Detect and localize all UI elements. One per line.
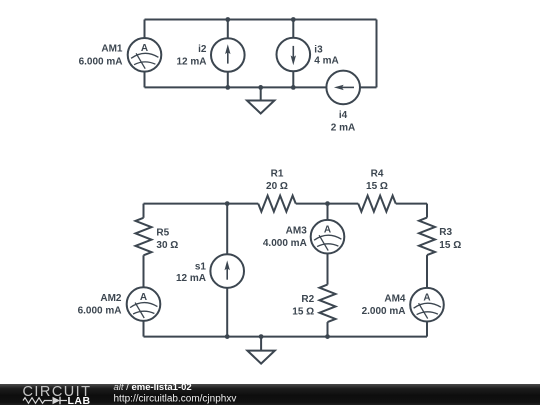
- svg-text:R2: R2: [301, 294, 314, 305]
- svg-text:i2: i2: [198, 44, 207, 55]
- svg-text:R5: R5: [156, 228, 169, 239]
- node dot i3 bottom: [291, 85, 296, 90]
- svg-text:4 mA: 4 mA: [314, 56, 338, 67]
- label i4: [331, 110, 355, 134]
- svg-text:LAB: LAB: [68, 395, 91, 405]
- svg-text:R1: R1: [271, 169, 284, 180]
- svg-text:http://circuitlab.com/cjnphxv: http://circuitlab.com/cjnphxv: [114, 394, 237, 405]
- resistor R2: [320, 285, 336, 323]
- svg-text:i3: i3: [314, 45, 323, 56]
- label i2: [176, 44, 206, 68]
- node dot i3 top: [291, 17, 296, 22]
- svg-text:s1: s1: [195, 261, 207, 272]
- svg-text:i4: i4: [339, 110, 348, 121]
- wire right branch upper: [426, 204, 428, 218]
- wire AM3 branch upper: [327, 204, 329, 220]
- label R1: [266, 169, 288, 193]
- wire R2 lower: [327, 322, 329, 337]
- node dot R2 bottom: [325, 334, 330, 339]
- svg-text:R3: R3: [439, 227, 452, 238]
- svg-text:2 mA: 2 mA: [331, 123, 355, 134]
- node dot AM3 top: [325, 201, 330, 206]
- current source i4: [326, 71, 360, 105]
- resistor R1: [258, 196, 296, 212]
- wire s1 branch lower: [226, 288, 228, 337]
- svg-text:2.000 mA: 2.000 mA: [362, 306, 406, 317]
- resistor R4: [358, 196, 396, 212]
- svg-text:12 mA: 12 mA: [176, 273, 206, 284]
- logo diode: [53, 397, 68, 405]
- label R4: [366, 169, 388, 193]
- footer bar: [0, 384, 540, 405]
- wire top rail segment 1: [144, 203, 259, 205]
- wire left branch upper: [143, 204, 145, 218]
- current source s1: [210, 254, 244, 288]
- node dot ground bottom circuit: [259, 334, 264, 339]
- wire top rail segment 2: [296, 203, 359, 205]
- wire bottom rail right of i4: [360, 86, 377, 88]
- svg-text:15 Ω: 15 Ω: [292, 306, 314, 317]
- label R5: [156, 228, 178, 252]
- svg-text:A: A: [140, 292, 147, 303]
- label R3: [439, 227, 461, 251]
- svg-text:R4: R4: [371, 169, 384, 180]
- svg-text:AM1: AM1: [101, 44, 123, 55]
- svg-text:12 mA: 12 mA: [176, 57, 206, 68]
- svg-text:A: A: [324, 225, 331, 236]
- ground (bottom circuit): [247, 337, 274, 364]
- svg-text:AM4: AM4: [384, 294, 406, 305]
- label s1: [176, 261, 206, 284]
- label R2: [292, 294, 314, 318]
- CircuitLab logo wordmark: [23, 384, 92, 405]
- wire AM3 to R2: [327, 254, 329, 285]
- resistor R5: [136, 218, 152, 256]
- node dot i2 top: [225, 17, 230, 22]
- logo resistor zigzag: [23, 398, 52, 404]
- current source i3: [277, 20, 311, 88]
- wire s1 branch upper: [226, 204, 228, 255]
- wire left branch lower: [143, 321, 145, 337]
- current source i2: [211, 20, 245, 88]
- label AM1: [79, 44, 123, 68]
- svg-text:AM3: AM3: [286, 226, 308, 237]
- svg-text:6.000 mA: 6.000 mA: [78, 306, 122, 317]
- svg-text:15 Ω: 15 Ω: [439, 240, 461, 251]
- svg-text:A: A: [423, 293, 430, 304]
- label AM4: [362, 294, 406, 318]
- wire top rail: [145, 19, 377, 21]
- svg-text:15 Ω: 15 Ω: [366, 181, 388, 192]
- ammeter AM2: [127, 287, 161, 321]
- wire bottom rail: [144, 336, 428, 338]
- ammeter AM1: [128, 20, 162, 88]
- node dot s1 bottom: [225, 334, 230, 339]
- svg-text:A: A: [141, 43, 148, 54]
- ground (top circuit): [247, 87, 274, 113]
- wire AM4 lower: [426, 322, 428, 337]
- wire R3 to AM4: [426, 255, 428, 288]
- svg-text:alt / eme-lista1-02: alt / eme-lista1-02: [114, 382, 192, 393]
- resistor R3: [419, 218, 435, 256]
- svg-text:AM2: AM2: [100, 293, 122, 304]
- wire left branch middle: [143, 255, 145, 287]
- ammeter AM4: [410, 288, 444, 322]
- label i3: [314, 45, 338, 67]
- svg-text:4.000 mA: 4.000 mA: [263, 238, 307, 249]
- wire bottom rail left of i4: [145, 86, 327, 88]
- node dot s1 top: [225, 201, 230, 206]
- label AM2: [78, 293, 122, 317]
- node dot ground top circuit: [258, 85, 263, 90]
- node dot i2 bottom: [225, 85, 230, 90]
- wire top rail segment 3: [396, 203, 427, 205]
- svg-text:30 Ω: 30 Ω: [156, 240, 178, 251]
- ammeter AM3: [311, 220, 345, 254]
- svg-text:6.000 mA: 6.000 mA: [79, 56, 123, 67]
- wire right vertical: [376, 20, 378, 88]
- svg-text:20 Ω: 20 Ω: [266, 181, 288, 192]
- label AM3: [263, 226, 307, 250]
